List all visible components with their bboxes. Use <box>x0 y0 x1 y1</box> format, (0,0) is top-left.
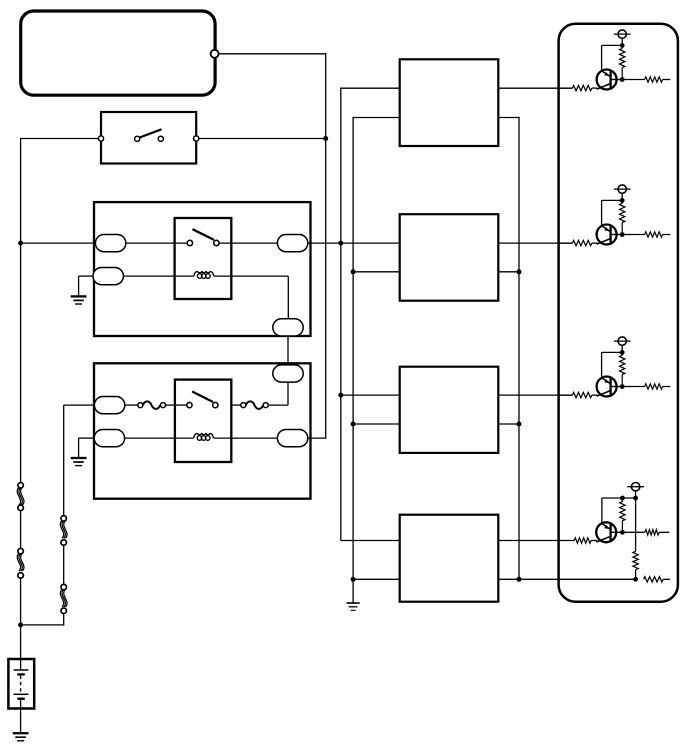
wire U1 bottom-left <box>353 117 400 119</box>
wire bus C vertical <box>352 117 354 603</box>
wire left feed to S1 <box>21 138 101 140</box>
connector pin K1 left-bottom <box>93 268 123 285</box>
wire K1 switch to right pin <box>219 242 277 244</box>
wire bus B vertical <box>340 88 342 541</box>
wire K1 pin to K2 pin <box>287 336 289 365</box>
fuse F3 left circle <box>138 403 143 408</box>
wire emitter feed 1 <box>602 45 623 70</box>
wire bus A vertical <box>325 53 327 438</box>
node left rail / relay K1 branch <box>18 241 23 246</box>
node bus A / switch wire junction <box>323 136 328 141</box>
wire emitter feed 2 <box>602 200 623 225</box>
module U3 <box>400 367 499 453</box>
resistor R1b (base feed) <box>557 85 597 90</box>
connector pin K1 bottom-right <box>273 319 303 336</box>
ground G2 <box>71 438 87 466</box>
node bus D / U3 <box>517 422 522 427</box>
node bus C / U4 branch <box>351 577 356 582</box>
wire U1 top-left <box>341 87 400 89</box>
node supply junction 2 <box>620 198 625 203</box>
transistor Q1 <box>597 70 623 90</box>
fuse F4 left circle <box>241 403 246 408</box>
wire control unit to bus A <box>219 53 327 55</box>
fuse F3 right circle <box>161 403 166 408</box>
wire U4 top-left <box>341 540 400 542</box>
switch S1 blade <box>140 129 162 137</box>
resistor R3b (base feed) <box>557 392 597 397</box>
control unit box (rounded) <box>21 11 215 95</box>
node resistor-top junction 4 <box>620 496 625 501</box>
wire pin to K2 coil <box>125 437 194 439</box>
node bus D / U2 <box>517 269 522 274</box>
transistor Q3 <box>597 377 623 397</box>
terminal on control unit <box>211 50 219 58</box>
wire emitter feed 3 <box>602 352 623 377</box>
wire K1 coil to corner <box>214 276 288 319</box>
driver panel enclosure (rounded) <box>559 24 678 602</box>
battery BT1 cells <box>14 659 29 709</box>
wire pin down to fuse row <box>268 382 288 405</box>
wire U3 top-left <box>341 394 400 396</box>
wire U3 output to driver 3 <box>498 394 572 396</box>
wire fuse to K2 switch <box>231 404 241 406</box>
wire chain join horizontal <box>21 624 64 626</box>
node left rail / chain 2 join <box>18 622 23 627</box>
wire to K1 common <box>21 242 96 244</box>
wire U3 bottom-right <box>498 423 519 425</box>
fuse F4 element <box>246 401 263 409</box>
node bus C / U2 branch <box>351 269 356 274</box>
wire U1 output to driver 1 <box>498 87 572 89</box>
wire U2 bottom-left <box>353 271 400 273</box>
node bus C / U3 branch <box>351 422 356 427</box>
connector pin K2 top-right <box>273 365 303 382</box>
wire U4 output to driver 4 <box>498 540 574 542</box>
wire K1 coil left <box>79 275 94 277</box>
relay K2 enclosure <box>94 363 311 498</box>
module U2 <box>400 214 499 301</box>
wire K2 output to bus A <box>308 437 327 439</box>
resistor R1c (output) <box>622 77 670 82</box>
fuse chain 2 upper element <box>60 516 67 546</box>
wire left rail lower <box>20 578 22 659</box>
node base junction 3 <box>620 384 625 389</box>
wire fuse F3 to K2 <box>166 404 175 406</box>
node bus D / bottom rail <box>517 577 522 582</box>
ground G3 (bus C) <box>347 602 360 604</box>
fuse F3 element <box>143 401 160 409</box>
connector pin K2 right-bottom <box>277 430 307 447</box>
wire left rail mid <box>20 511 22 549</box>
resistor R3c (output) <box>622 384 670 389</box>
wire supply link 4 <box>602 498 636 523</box>
fuse chain 2 lower element <box>60 584 67 613</box>
connector pin K2 left-top <box>94 397 124 414</box>
fuse chain 1 lower element <box>17 548 24 578</box>
resistor R4c (output) <box>622 530 669 535</box>
resistor R1a <box>620 45 625 77</box>
wire battery to ground <box>20 709 22 733</box>
switch K1 contacts <box>187 240 219 245</box>
wire pin to K1 coil <box>123 275 193 277</box>
terminal S1 right <box>194 136 199 141</box>
wire S1 to bus A <box>199 138 326 140</box>
battery BT1 box <box>8 659 34 709</box>
transistor Q2 <box>597 225 623 245</box>
wire chain 2 bottom <box>63 614 65 626</box>
ground G4 (battery) <box>13 732 29 734</box>
resistor R3a <box>620 352 625 384</box>
relay K2 inner box <box>175 380 231 462</box>
terminal T4 <box>627 483 644 499</box>
node supply junction 4 <box>633 496 638 501</box>
module U1 <box>400 59 499 146</box>
ground G1 <box>71 276 87 304</box>
wire bus D vertical <box>518 117 520 579</box>
wire U1 bottom-right <box>498 117 519 119</box>
connector pin K2 left-bottom <box>94 430 124 447</box>
relay K1 enclosure <box>94 202 311 336</box>
wire chain 2 mid <box>63 545 65 584</box>
wire pin to fuse F3 <box>125 404 138 406</box>
module U4 <box>400 515 499 602</box>
connector pin K1 left-top <box>95 235 125 252</box>
wire left rail (battery feed) upper <box>20 138 22 483</box>
wire pin to K1 switch <box>126 242 188 244</box>
wire U2 bottom-right <box>498 271 519 273</box>
wire U2 output to driver 2 <box>498 242 572 244</box>
wire bottom rail <box>498 578 635 580</box>
wire U3 bottom-left <box>353 423 400 425</box>
wire K2 coil ground branch <box>79 437 95 439</box>
node bus B / U3 branch <box>338 393 343 398</box>
resistor R4a <box>620 498 625 530</box>
terminal T2 <box>614 185 631 200</box>
transistor Q4 <box>596 522 622 542</box>
node supply junction 3 <box>620 350 625 355</box>
terminal T1 <box>614 30 631 46</box>
node base junction 2 <box>620 232 625 237</box>
terminal S1 left <box>98 136 103 141</box>
resistor R2c (output) <box>622 232 670 237</box>
node base junction 1 <box>620 77 625 82</box>
inductor K2 coil <box>194 434 214 439</box>
switch K2 blade <box>192 392 213 403</box>
switch K1 blade <box>193 229 215 240</box>
switch K2 contacts <box>187 402 218 407</box>
node bottom rail junction <box>633 577 638 582</box>
terminal T3 <box>614 337 631 353</box>
node base junction 4 <box>620 530 625 535</box>
wire K1 output to box U2 <box>308 242 400 244</box>
wire U4 bottom-left <box>353 578 400 580</box>
node bus B junction (K1 output) <box>338 241 343 246</box>
switch S1 contacts <box>135 136 164 141</box>
inductor K1 coil <box>194 272 214 277</box>
resistor R4d (to bottom rail) <box>633 498 638 579</box>
wire K2 coil to right pin <box>214 437 278 439</box>
fuse F4 right circle <box>263 403 268 408</box>
wire K2 feed from chain 2 <box>64 405 95 516</box>
resistor R4b (base feed) <box>574 538 597 543</box>
resistor R4e (rail output) <box>644 577 671 582</box>
relay K1 inner box <box>175 218 232 299</box>
resistor R2a <box>620 200 625 232</box>
node supply junction 1 <box>620 43 625 48</box>
switch box S1 <box>101 112 196 164</box>
resistor R2b (base feed) <box>557 240 597 245</box>
wire inner left of K2 switch <box>175 404 187 406</box>
connector pin K1 right-top <box>277 235 307 252</box>
fuse chain 1 upper element <box>17 483 24 511</box>
